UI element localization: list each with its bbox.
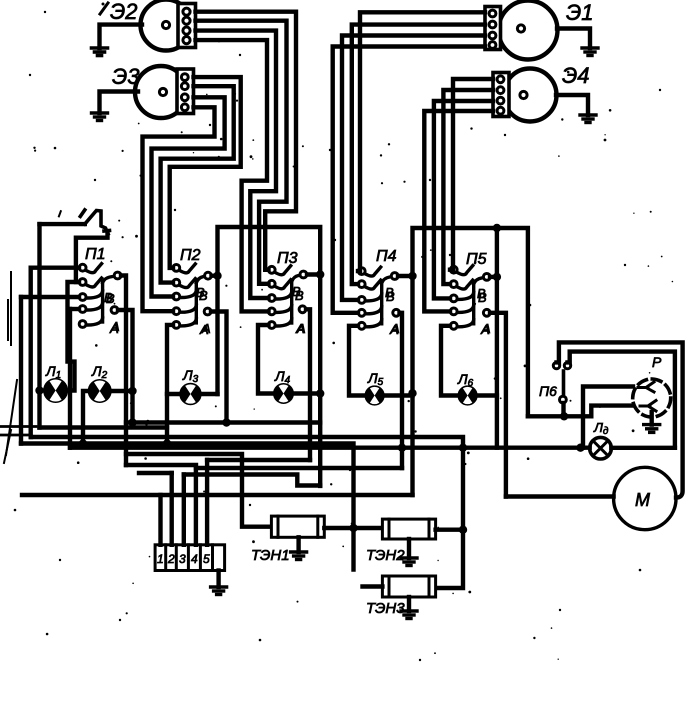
node P6 junction — [560, 412, 568, 420]
wire E1 T3 to P4 row3 — [342, 36, 485, 300]
wire L2 right to P1R2 vertical — [110, 389, 132, 393]
ground — [401, 558, 417, 566]
burner E2 — [100, 0, 192, 51]
lamp L6 — [457, 371, 476, 404]
switch P3 — [268, 250, 306, 336]
connector block of E1 — [485, 7, 501, 50]
wire bus B6 to TEN1 left — [126, 454, 271, 527]
wire E1 T4 to P4 row4 — [333, 47, 485, 313]
switch P5 — [450, 251, 490, 336]
wire E2 lead to ground — [100, 25, 143, 48]
wire terminal 1 riser — [158, 495, 162, 545]
wire bus B4 to TEN2 left — [21, 444, 354, 570]
wire P4 R1 to junction — [398, 274, 413, 278]
svg-text:П4: П4 — [376, 248, 397, 265]
wire E2 T4 to P3 row4 — [196, 40, 269, 311]
node L2 bottom junction — [79, 439, 87, 447]
wire terminal block ground drop — [216, 571, 220, 588]
node L2 right junction — [128, 387, 136, 395]
wire L2 left down to bus B4 — [83, 391, 89, 444]
lamp L1 — [45, 363, 67, 402]
node L1 junction — [35, 386, 43, 394]
lamp Ld — [590, 420, 612, 459]
wire E4 lead to ground — [556, 95, 588, 115]
node B0-P1R2 junction — [128, 418, 136, 426]
terminal block — [155, 545, 225, 571]
wire L4 left from P3 row5 — [258, 325, 275, 394]
svg-text:3: 3 — [179, 552, 186, 566]
wire P1 row4 riser to bus B5 — [68, 309, 72, 448]
wire P upper lead to bus B5 — [583, 387, 633, 448]
switch P1 — [79, 246, 121, 334]
wire E1 T2 to P4 row2 — [352, 25, 485, 285]
svg-text:Э1: Э1 — [566, 0, 594, 25]
ground — [582, 48, 598, 56]
lamp L2 — [89, 363, 110, 402]
svg-text:А: А — [109, 321, 119, 336]
svg-text:В: В — [385, 285, 394, 300]
svg-text:П1: П1 — [85, 246, 106, 263]
wire left vertical row3 to bus B4 — [19, 297, 23, 444]
node B5-TEN junction — [459, 444, 467, 452]
svg-text:ТЭН2: ТЭН2 — [366, 547, 405, 564]
svg-text:Э3: Э3 — [112, 64, 140, 89]
lamp L4 — [274, 368, 293, 403]
lamp L3 — [181, 367, 200, 404]
wire E4 T1 to P5 row1 — [450, 79, 493, 270]
wire P6 right contact to Ld right — [568, 352, 675, 448]
motor M — [614, 467, 676, 529]
wire P5 A output down to M — [490, 313, 506, 497]
switch P6 — [539, 362, 571, 403]
wire E3 lead to ground — [100, 92, 139, 114]
node TEN1-TEN2 junction — [349, 524, 357, 532]
wire TEN1 ground stub — [296, 537, 300, 552]
svg-text:1: 1 — [157, 552, 164, 566]
svg-text:П2: П2 — [180, 247, 201, 264]
wire T1 line — [22, 493, 413, 497]
ground — [580, 115, 596, 123]
burner E3 — [112, 64, 187, 118]
svg-text:П5: П5 — [466, 251, 487, 268]
burner E4 — [504, 63, 590, 122]
wire L3 riser continues to bus B4 — [165, 394, 169, 444]
node riser-B4 junction — [163, 439, 171, 447]
wire T4 line — [126, 465, 402, 468]
wire P1 row1 from left vertical — [31, 266, 79, 270]
ground — [291, 552, 307, 560]
heater TEN1 — [251, 516, 324, 564]
wire bus P4-P5 with B verticals — [413, 228, 528, 495]
wire P4 A output down to M line — [400, 313, 403, 468]
svg-text:В: В — [196, 285, 205, 300]
ground — [92, 113, 108, 121]
wire bus P2-P3 with B verticals — [218, 227, 321, 486]
wire M feed line — [506, 494, 614, 498]
wire terminal 5 riser — [205, 460, 209, 545]
svg-text:П3: П3 — [277, 250, 298, 267]
svg-text:А: А — [295, 321, 305, 336]
wire T3 line — [184, 475, 320, 486]
wire left vertical row1 to bus B2 — [29, 268, 34, 437]
wire P2 R1 to junction — [212, 274, 218, 278]
wire E3 T4 to P2 row4 — [143, 107, 215, 311]
node bus B0 junction — [222, 418, 230, 426]
thermal switch above P1 — [80, 210, 109, 234]
wire E2 T1 to P3 row1 — [196, 12, 297, 270]
node B5-P junction — [576, 444, 584, 452]
svg-text:А: А — [480, 322, 490, 337]
wire E1 lead to ground — [557, 29, 590, 49]
wire thermal switch down to P1 row2 — [76, 233, 108, 282]
wire P6 feed line — [528, 406, 633, 417]
wire E4 T2 to P5 row2 — [443, 90, 493, 284]
wire bus B2 to TEN right vertical — [31, 437, 463, 588]
svg-text:М: М — [635, 490, 650, 510]
ground — [92, 48, 108, 56]
wire L5 right to P4 B vertical — [383, 393, 412, 397]
wire E4 T3 to P5 row3 — [434, 101, 493, 298]
node L4 right junction — [316, 389, 324, 397]
node P2 B junction — [213, 272, 221, 280]
wire L3 left from P2 row5 — [167, 325, 181, 394]
wire L3 right to P2 B vertical — [200, 392, 217, 396]
wire Ld right lead — [611, 446, 675, 450]
wire TEN2 ground stub — [407, 539, 411, 558]
wire E1 T1 to P4 row1 — [358, 12, 485, 271]
wire T5 line — [207, 458, 310, 462]
wire TEN3 left stub — [363, 584, 383, 588]
switch P2 — [173, 247, 212, 336]
wire P3 A output down — [306, 309, 310, 460]
wire P5 R1 to junction — [490, 275, 497, 279]
node B5-P4A junction — [398, 444, 406, 452]
wire from left vertical to thermal switch — [40, 222, 85, 226]
wire TEN3 ground stub — [407, 597, 411, 611]
wire E3 T2 to P2 row2 — [161, 86, 234, 282]
wire L1 left to vertical — [40, 388, 45, 392]
heater TEN2 — [366, 519, 436, 564]
wire E3 T1 to P2 row1 — [170, 77, 241, 268]
node P4 B junction — [408, 272, 416, 280]
wire P5 B vertical down to Lд bus — [495, 228, 499, 448]
ground — [401, 611, 417, 619]
wire P2 A output down to bus B0 — [211, 312, 227, 423]
wire P1 row3 from left vertical — [21, 295, 79, 299]
svg-text:Э4: Э4 — [562, 63, 590, 88]
wire L6 right to P5 B vertical — [476, 393, 497, 397]
wire bus B1 — [40, 425, 168, 429]
heater TEN3 — [366, 576, 436, 617]
node P3 B junction — [316, 270, 324, 278]
wire terminal 2 riser — [169, 473, 173, 545]
svg-text:В: В — [477, 286, 486, 301]
wire L1 right up to P1 row2 — [67, 282, 79, 391]
wire terminal 3 riser — [182, 475, 186, 545]
wire bus B5 to lamp Ld — [70, 446, 590, 450]
wire T2 line — [139, 471, 172, 475]
wire TEN1 right lead — [324, 526, 382, 530]
wire terminal 4 riser — [194, 468, 198, 545]
ground — [644, 425, 660, 433]
wire bus B0 — [126, 420, 320, 424]
svg-text:А: А — [199, 322, 209, 337]
wire E2 T3 to P3 row3 — [196, 31, 277, 298]
wire P3 R1 to junction — [307, 272, 320, 276]
node TEN2-TEN3 junction — [459, 526, 467, 534]
svg-text:Р: Р — [652, 354, 662, 370]
wire TEN2 right lead — [436, 528, 463, 532]
wire L6 left from P5 row5 — [441, 326, 459, 396]
wire P6 bottom stub — [561, 403, 565, 416]
svg-text:5: 5 — [203, 552, 210, 566]
wire E3 T3 to P2 row3 — [152, 97, 225, 296]
svg-text:В: В — [292, 284, 301, 299]
switch P4 — [358, 248, 399, 336]
wire P1 R1 output to bus B6 — [121, 276, 126, 466]
lamp L5 — [366, 370, 384, 404]
connector block of E2 — [178, 4, 196, 48]
wire E2 T2 to P3 row2 — [196, 21, 287, 284]
wire P6 left contact up to top wire — [557, 342, 683, 497]
node L5 right junction — [408, 389, 416, 397]
svg-text:ТЭН3: ТЭН3 — [366, 600, 405, 617]
svg-text:Э2: Э2 — [110, 0, 138, 24]
wire L5 left from P4 row5 — [349, 326, 366, 396]
burner E1 — [499, 0, 594, 60]
svg-text:В: В — [104, 290, 113, 305]
svg-text:ТЭН1: ТЭН1 — [251, 547, 290, 564]
wire left vertical thermal to bus B1 — [37, 224, 41, 427]
node P5 bus junction — [493, 224, 501, 232]
wire P1 row4 from left riser — [70, 307, 79, 311]
svg-text:2: 2 — [167, 552, 175, 566]
svg-text:4: 4 — [191, 552, 198, 566]
ground — [211, 587, 227, 595]
regulator P — [633, 354, 671, 425]
connector block of E4 — [493, 73, 509, 117]
wire E4 T4 to P5 row4 — [424, 111, 493, 311]
svg-text:П6: П6 — [539, 383, 557, 399]
svg-text:А: А — [389, 322, 399, 337]
connector block of E3 — [177, 69, 194, 114]
wire P1 R2 output down through L2 to bus B0 — [118, 310, 133, 423]
wire L4 right to P3 B vertical — [293, 391, 321, 395]
node P5 B junction — [493, 273, 501, 281]
